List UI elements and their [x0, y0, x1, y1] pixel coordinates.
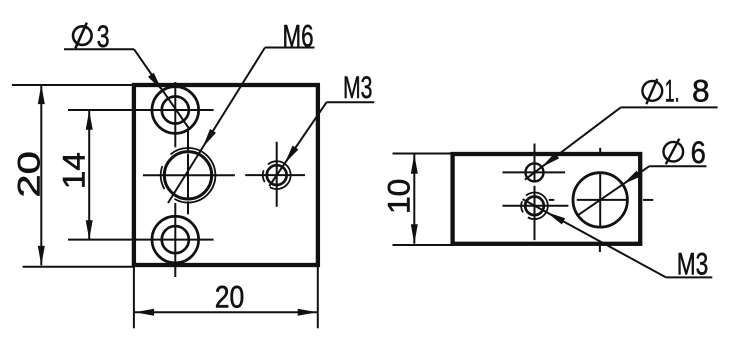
svg-text:10: 10 [380, 179, 416, 215]
extension line 10 top [393, 153, 453, 155]
leader underline label M3 front [327, 101, 375, 103]
centerline vertical dia6 hole [599, 174, 601, 226]
leader line M6 [168, 48, 265, 204]
arrowhead dim10 top [411, 154, 418, 174]
centerline horizontal M3 front [245, 174, 305, 176]
svg-text:1.: 1. [665, 73, 680, 109]
leader line M3 front [269, 102, 326, 186]
arrowhead leader M3 side [546, 212, 565, 224]
leader underline label dia6 [649, 165, 706, 167]
arrowhead dim10 bottom [411, 224, 418, 244]
leader line dia3 [134, 49, 189, 129]
leader line M3 side [523, 199, 666, 277]
leader line dia1.8 [525, 107, 621, 179]
arrowhead leader dia1.8 [541, 153, 559, 168]
tapped hole M6 thread arc short [161, 166, 165, 189]
svg-text:M6: M6 [283, 17, 314, 53]
arrowhead leader dia3 [148, 73, 162, 91]
tapped hole M3 side thread arc [526, 192, 548, 219]
svg-text:6: 6 [691, 134, 706, 170]
centerline horizontal bottom hole / extension line 14 bottom [68, 239, 214, 241]
leader underline label dia3 [64, 48, 134, 50]
centerline horizontal M3 side hole [503, 205, 569, 207]
arrowhead dim20v top [38, 85, 45, 105]
centerline horizontal dia1.8 hole [503, 171, 566, 173]
arrowhead dim14 bottom [86, 220, 93, 240]
arrowhead leader M6 [203, 129, 216, 147]
arrowhead leader M3 front [285, 146, 299, 164]
dimension line 20 vertical [40, 85, 42, 266]
drilled hole dia6 circle [573, 173, 627, 227]
tapped hole M6 minor circle [164, 152, 211, 199]
tapped hole M6 thread arc long [171, 148, 216, 203]
side view block outline [453, 154, 641, 244]
diameter symbol of label dia3 [73, 23, 92, 49]
svg-text:20: 20 [215, 279, 245, 315]
drilled hole dia1.8 circle [526, 163, 544, 181]
svg-text:14: 14 [56, 152, 92, 189]
tapped hole M3 side minor circle [525, 197, 544, 216]
arrowhead dim20v bottom [38, 246, 45, 266]
svg-text:20: 20 [11, 151, 47, 198]
extension line 20 bottom right [317, 265, 319, 328]
diameter symbol of label dia6 [664, 139, 684, 165]
front view block outline [134, 85, 318, 265]
centerline vertical M3 side hole [534, 186, 536, 240]
tapped hole M3 front minor circle [267, 165, 287, 185]
centerline horizontal M6 hole [143, 174, 235, 176]
extension line 10 bottom [393, 244, 453, 246]
leader underline label M3 side [666, 276, 712, 278]
extension line 20 bottom left [133, 265, 135, 328]
svg-text:8: 8 [692, 73, 710, 109]
counterbore hole bottom outer circle [152, 216, 199, 263]
extension line 20 vertical top [12, 84, 134, 86]
centerline vertical M3 front [276, 142, 278, 207]
svg-text:M3: M3 [677, 245, 709, 281]
counterbore hole top inner circle [162, 96, 189, 123]
dimension line 20 bottom [135, 311, 318, 313]
leader underline label dia1.8 [621, 106, 718, 108]
arrowhead leader dia6 [623, 171, 641, 185]
dimension line 10 [413, 154, 415, 244]
centerline vertical top hole [174, 82, 176, 147]
arrowhead dim20h right [298, 309, 318, 316]
leader underline label M6 [265, 47, 315, 49]
counterbore hole bottom inner circle [162, 226, 189, 253]
centerline horizontal dia6 hole [549, 199, 555, 201]
centerline vertical M6 hole [187, 129, 189, 151]
svg-text:M3: M3 [343, 69, 373, 105]
counterbore hole top outer circle [152, 87, 199, 134]
centerline vertical bottom hole [174, 203, 176, 277]
diameter symbol of label dia1.8 [642, 79, 662, 104]
extension line 20 vertical bottom [23, 266, 134, 268]
svg-text:3: 3 [97, 18, 110, 54]
dimension line 14 [88, 110, 90, 240]
arrowhead dim14 top [86, 110, 93, 130]
leader line dia6 [578, 166, 650, 215]
centerline horizontal top hole / extension line 14 top [68, 109, 214, 111]
tapped hole M3 front thread arc [268, 161, 291, 189]
arrowhead dim20h left [135, 309, 155, 316]
centerline vertical dia1.8 hole [534, 144, 536, 182]
